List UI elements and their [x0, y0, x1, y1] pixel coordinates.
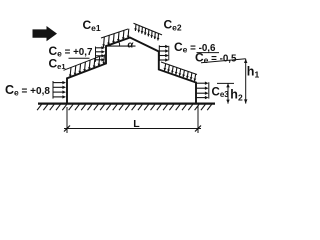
building outline with roof monitor [67, 38, 196, 104]
monitor lee wall suction arrows [159, 46, 166, 48]
hatch stroke arrows [103, 37, 106, 47]
dimension L extension left [66, 107, 68, 133]
leader under Ce=-0.6 [197, 52, 220, 54]
dimension h2 line [227, 83, 229, 103]
dimension h1 line [245, 59, 247, 104]
load envelope line [134, 23, 163, 35]
leader from Ce=-0.5 to h1 [201, 59, 246, 63]
windward wall load arrows tail line (Ce=+0.8) [52, 81, 54, 99]
load envelope line [161, 62, 197, 75]
lee wall suction arrows Ce3 [197, 82, 206, 84]
L tick left [64, 126, 70, 132]
svg-text:Ce = +0,8: Ce = +0,8 [5, 83, 50, 98]
lee wall arrows head line [208, 82, 210, 98]
svg-text:L: L [133, 118, 140, 130]
wind direction arrow [33, 26, 58, 41]
load envelope line [64, 55, 103, 70]
ground line [38, 102, 215, 104]
dimension L extension right [197, 106, 199, 133]
windward wall load arrows [53, 82, 63, 84]
hatch stroke arrows [70, 67, 71, 77]
monitor lee wall suction arrows tail line [158, 45, 160, 61]
monitor windward wall load arrows tail line (Ce=+0.7) [95, 47, 97, 62]
alpha horizontal reference line [106, 45, 136, 47]
hatch stroke arrows [134, 24, 137, 31]
L tick right [195, 126, 201, 132]
hatch stroke arrows [165, 64, 166, 71]
monitor windward wall load arrows [96, 47, 103, 49]
dimension h2 extension line [217, 82, 234, 84]
alpha angle arc [118, 42, 119, 47]
monitor lee arrows head line [168, 46, 170, 61]
load envelope line [101, 29, 128, 38]
dimension L line [64, 128, 201, 130]
leader under Ce=+0.7 [69, 57, 90, 59]
ground hatching [37, 104, 41, 110]
